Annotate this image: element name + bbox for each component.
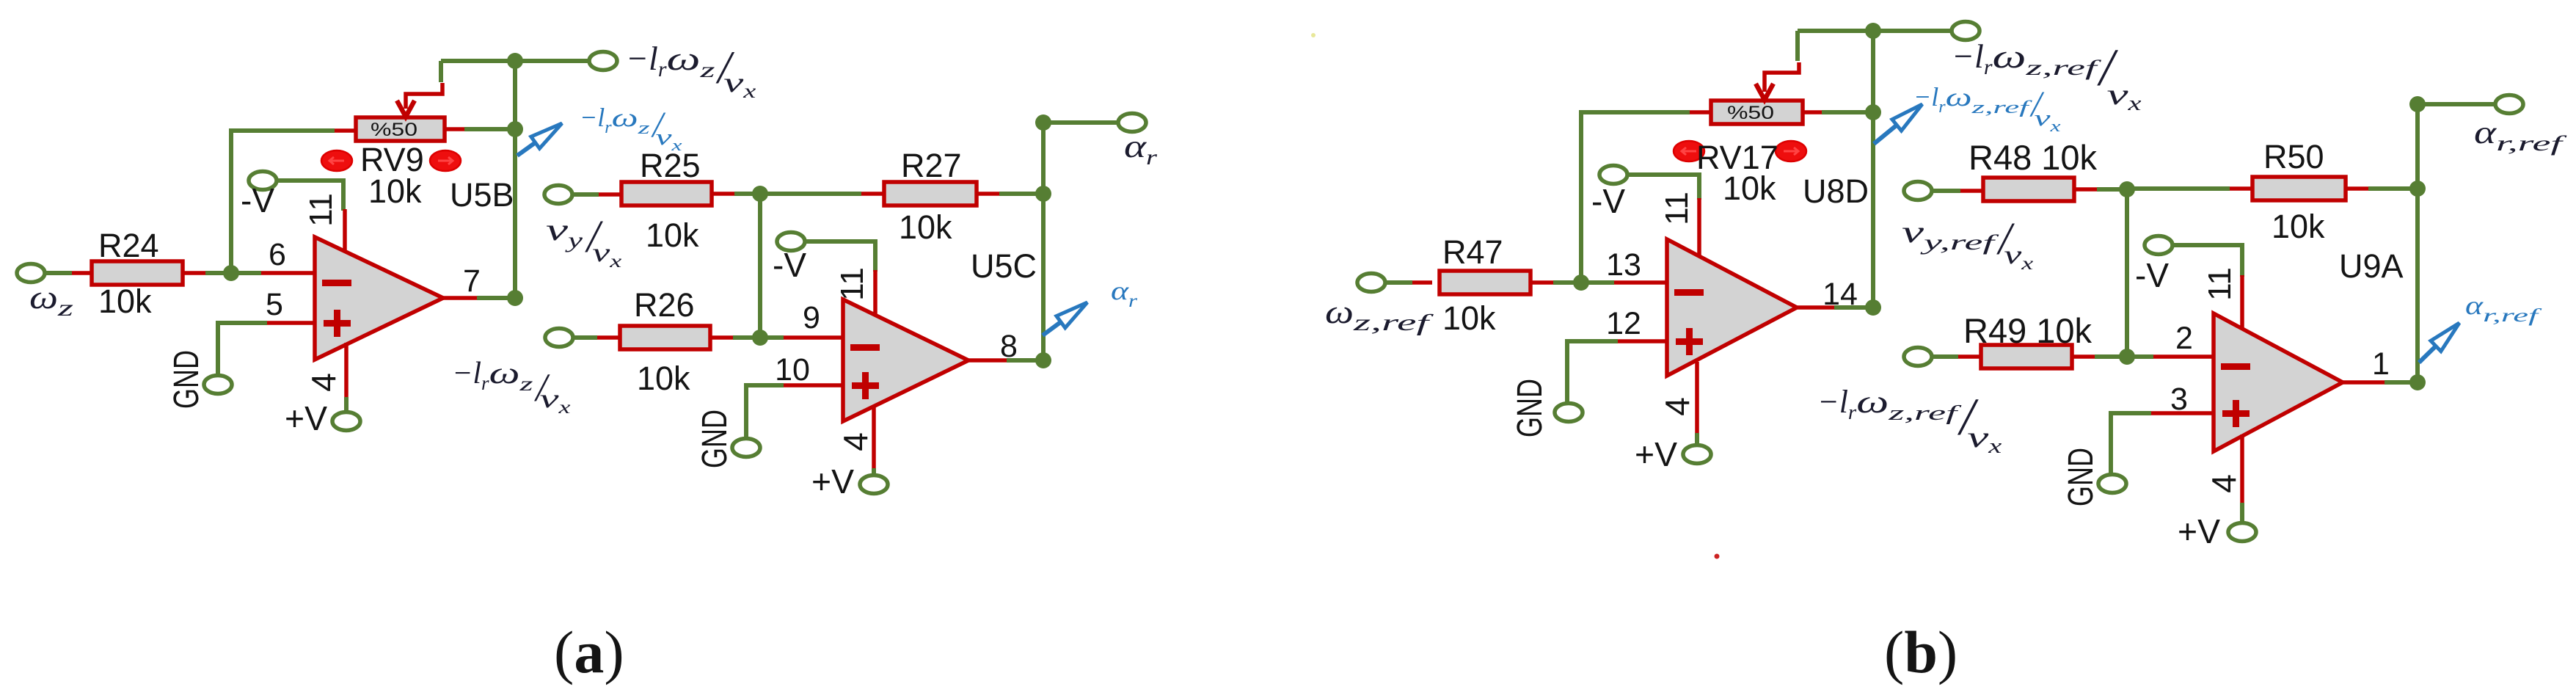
svg-text:U5B: U5B	[450, 176, 514, 214]
wire R50 to node G	[2368, 186, 2418, 191]
wire terminal to R26	[573, 335, 597, 340]
svg-text:10k: 10k	[646, 216, 699, 254]
svg-text:vy/vx: vy/vx	[546, 212, 621, 272]
+V terminal U5C	[860, 476, 888, 494]
resistor R50	[2252, 177, 2346, 200]
svg-text:7: 7	[463, 263, 481, 299]
resistor R47	[1440, 271, 1530, 294]
ground terminal U5B	[204, 376, 232, 394]
feedback wire node E to RV17	[1581, 112, 1690, 283]
svg-text:-V: -V	[1591, 182, 1625, 220]
wire R48 to node F	[2097, 187, 2127, 192]
node top alpha_ref junction	[2409, 96, 2426, 112]
pin stub R25 left	[599, 192, 621, 197]
blue annotation arrow a2	[1043, 322, 1061, 335]
svg-text:10k: 10k	[2272, 208, 2325, 245]
pin 8 stub U5C	[968, 358, 1008, 363]
svg-text:6: 6	[269, 237, 286, 272]
wire terminal to R49	[1932, 354, 1958, 359]
pin stub R27 left	[861, 192, 884, 196]
wire node A to pin 6	[231, 271, 261, 275]
svg-text:(a): (a)	[554, 619, 624, 685]
pin stub R27 right	[977, 192, 999, 196]
pin 4 stub U5C	[872, 405, 876, 468]
node RV9 junction	[507, 121, 523, 137]
+V terminal U8D	[1683, 445, 1711, 464]
node RV17 junction	[1865, 104, 1881, 120]
wire node B to R27	[760, 192, 861, 196]
node F junction	[2119, 181, 2135, 197]
resistor R27	[884, 182, 977, 205]
node C junction	[1035, 186, 1051, 202]
pin 5 stub U5B	[267, 321, 315, 325]
pin stub R47 right	[1530, 280, 1553, 285]
screw mark right of RV9	[430, 150, 461, 171]
wire RV9 to vertical net	[464, 127, 515, 131]
svg-text:-V: -V	[773, 246, 806, 284]
input terminal omega_z_ref	[1357, 274, 1385, 292]
wire R47 to node E	[1553, 280, 1581, 285]
svg-text:αr,ref: αr,ref	[2465, 291, 2542, 326]
terminal vy/vx input	[544, 186, 572, 204]
node G junction	[2409, 181, 2426, 197]
svg-text:1: 1	[2372, 346, 2390, 382]
svg-text:−lrωz,ref/vx: −lrωz,ref/vx	[1913, 82, 2061, 135]
op-amp U9A	[2214, 313, 2343, 451]
pin 2 stub U9A	[2153, 354, 2214, 359]
svg-text:R27: R27	[901, 147, 962, 184]
pin stub RV9 left	[335, 128, 357, 133]
RV17 wiper arrowhead	[1756, 84, 1773, 100]
wire GND to pin 10	[746, 385, 784, 439]
terminal -V U5C	[777, 233, 805, 251]
svg-text:R47: R47	[1442, 233, 1503, 271]
svg-text:−lrωz/vx: −lrωz/vx	[452, 357, 571, 418]
wire to alpha_r_ref terminal	[2418, 102, 2495, 106]
resistor R26	[620, 326, 710, 349]
terminal alpha_r	[1118, 114, 1146, 132]
wire pin4 to +V U9A	[2240, 503, 2244, 523]
svg-text:12: 12	[1606, 306, 1641, 341]
vertical wire node G to output U9A	[2415, 104, 2420, 382]
wire GND to pin 5	[218, 323, 267, 376]
pin 14 stub U8D	[1797, 305, 1836, 310]
svg-text:10k: 10k	[899, 208, 952, 246]
svg-text:αr,ref: αr,ref	[2474, 114, 2567, 156]
pin 11 stub U9A	[2240, 275, 2244, 329]
svg-text:4: 4	[2205, 474, 2243, 493]
wire vy terminal to R25	[572, 192, 599, 197]
svg-text:11: 11	[303, 193, 339, 227]
svg-text:+V: +V	[1635, 435, 1677, 473]
svg-text:10k: 10k	[98, 283, 152, 320]
terminal -lrwz/vx input a	[545, 329, 573, 347]
svg-text:−lrωz,ref/vx: −lrωz,ref/vx	[1817, 384, 2002, 458]
blue annotation arrow a1	[517, 142, 536, 156]
pin 4 stub U8D	[1695, 362, 1699, 433]
svg-text:3: 3	[2170, 382, 2188, 417]
wire to alpha_r terminal	[1043, 120, 1118, 125]
pin stub R49 left	[1958, 354, 1981, 359]
svg-text:ωz,ref: ωz,ref	[1325, 293, 1434, 335]
wire node D to pin 9	[760, 335, 784, 340]
node output U5B junction	[507, 290, 523, 306]
op-amp U5B	[315, 237, 443, 360]
pin stub R26 left	[597, 335, 620, 340]
svg-text:4: 4	[836, 432, 875, 451]
RV9 wiper arrowhead	[397, 101, 415, 117]
resistor R48	[1983, 178, 2074, 201]
svg-text:13: 13	[1606, 247, 1641, 283]
+V terminal U5B	[332, 412, 360, 431]
wire pin14 to vertical net b	[1834, 305, 1873, 310]
node top-a junction	[507, 53, 523, 69]
pin stub R48 right	[2074, 187, 2097, 192]
svg-text:R25: R25	[640, 147, 701, 184]
wire node H to pin 2	[2127, 354, 2153, 359]
node output U8D junction	[1865, 299, 1881, 316]
RV17 wiper red path	[1765, 62, 1799, 92]
resistor R24	[92, 261, 183, 285]
svg-text:11: 11	[834, 267, 870, 301]
pin 4 stub U5B	[344, 343, 349, 397]
pin 1 stub U9A	[2343, 380, 2386, 385]
ground terminal U5C	[732, 439, 760, 457]
pin 10 stub U5C	[784, 383, 844, 387]
terminal alpha_r_ref	[2495, 95, 2523, 114]
potentiometer RV17 body	[1711, 101, 1803, 124]
ground terminal U9A	[2098, 475, 2126, 493]
pin stub RV9 right	[445, 127, 464, 131]
pin 12 stub U8D	[1618, 339, 1668, 343]
svg-text:11: 11	[1659, 192, 1695, 225]
svg-text:4: 4	[1658, 397, 1696, 416]
pin stub R48 left	[1960, 189, 1983, 193]
svg-text:2: 2	[2175, 321, 2193, 356]
terminal -lrwzref/vx top b	[1952, 22, 1980, 40]
top output wire circuit b	[1798, 29, 1951, 33]
wire -V to pin 11 U9A	[2172, 245, 2242, 277]
stray yellow speck	[1311, 33, 1316, 37]
wire GND to pin 3	[2111, 413, 2151, 475]
feedback wire node F down to pin 2 node	[2125, 189, 2129, 357]
op-amp U8D	[1667, 239, 1797, 376]
pin stub R26 right	[710, 335, 733, 340]
pin stub R24 right	[183, 271, 205, 275]
wire omega_z_ref to R47	[1385, 280, 1412, 285]
node E junction	[1573, 274, 1589, 291]
terminal -V U5B	[249, 172, 277, 190]
stray red speck	[1715, 554, 1720, 559]
svg-text:%50: %50	[1727, 103, 1774, 123]
node D junction	[752, 330, 768, 346]
wire R27 to node C	[999, 192, 1043, 196]
svg-text:10k: 10k	[637, 360, 690, 397]
svg-text:(b): (b)	[1884, 619, 1957, 685]
svg-text:GND: GND	[1511, 379, 1550, 437]
wire R25 to node B	[734, 192, 760, 196]
terminal -lrwzref/vx input b	[1904, 348, 1932, 366]
op-amp U5C	[843, 299, 968, 421]
terminal vyref/vx input	[1904, 182, 1932, 200]
wire node E to pin 13	[1581, 280, 1614, 285]
svg-text:αr: αr	[1124, 128, 1157, 170]
pin 11 stub U8D	[1697, 198, 1701, 256]
wire pin4 to +V U8D	[1695, 433, 1699, 445]
pin 7 stub U5B	[443, 296, 478, 300]
pin 11 stub U5B	[343, 209, 347, 254]
top output wire circuit a	[441, 59, 589, 63]
svg-text:GND: GND	[167, 350, 206, 409]
svg-text:R50: R50	[2263, 138, 2324, 175]
svg-text:R49 10k: R49 10k	[1963, 311, 2092, 350]
pin stub R25 right	[712, 192, 734, 196]
node B junction	[752, 186, 768, 202]
resistor R49	[1981, 345, 2072, 368]
wire R26 to node D	[733, 335, 760, 340]
resistor R25	[621, 182, 712, 205]
wire node F to R50	[2127, 186, 2230, 191]
svg-text:+V: +V	[2178, 512, 2220, 550]
svg-text:+V: +V	[285, 399, 327, 437]
pin 3 stub U9A	[2151, 411, 2214, 415]
svg-text:ωz: ωz	[29, 278, 74, 321]
svg-text:U9A: U9A	[2339, 247, 2404, 285]
screw mark right of RV17	[1776, 141, 1806, 161]
wire pin1 to node G net	[2385, 380, 2418, 385]
wire pin4 to +V terminal U5B	[344, 397, 349, 412]
pin stub R50 right	[2346, 186, 2368, 191]
svg-text:αr: αr	[1111, 276, 1137, 311]
svg-text:-V: -V	[241, 181, 274, 219]
pin stub R50 left	[2230, 186, 2252, 191]
RV9 wiper wire green part	[439, 61, 443, 82]
svg-text:-V: -V	[2135, 256, 2169, 294]
wire pin7 to vertical net	[477, 296, 515, 300]
pin stub R47 left	[1412, 280, 1432, 285]
wire vyref terminal to R48	[1932, 189, 1960, 193]
pin 4 stub U9A	[2240, 434, 2244, 503]
wire -V to pin 11 U8D	[1627, 175, 1699, 200]
pin stub R24 left	[72, 271, 92, 275]
wire -V to pin 11 U5B	[277, 181, 343, 211]
RV9 wiper red path	[406, 83, 442, 109]
pin stub R49 right	[2072, 354, 2095, 359]
svg-text:10k: 10k	[1442, 299, 1496, 337]
screw mark left of RV17	[1674, 141, 1704, 161]
svg-text:9: 9	[803, 300, 820, 335]
wire pin4 to +V U5C	[872, 468, 876, 476]
feedback wire node A to RV9	[231, 131, 335, 273]
svg-text:U8D: U8D	[1803, 172, 1869, 210]
input terminal omega_z	[17, 264, 45, 283]
svg-text:GND: GND	[696, 410, 734, 468]
node top alpha junction	[1035, 114, 1051, 131]
svg-text:%50: %50	[371, 120, 417, 140]
vertical net wire output U8D	[1871, 31, 1875, 308]
wire RV17 to vertical net b	[1822, 110, 1873, 114]
wire R49 to node H	[2095, 354, 2127, 359]
+V terminal U9A	[2228, 523, 2256, 542]
wire pin8 to node C net	[1007, 358, 1043, 363]
node output U5C junction	[1035, 352, 1051, 368]
svg-text:−lrωz/vx: −lrωz/vx	[626, 40, 756, 102]
pin 13 stub U8D	[1614, 280, 1668, 285]
vertical wire node C to output U5C	[1041, 123, 1046, 360]
svg-text:11: 11	[2202, 267, 2238, 301]
pin 9 stub U5C	[784, 335, 844, 340]
vertical net wire output U5B	[513, 61, 517, 298]
pin stub RV17 right	[1803, 110, 1822, 114]
wire R24 to node A	[205, 271, 231, 275]
node top-b junction	[1865, 23, 1881, 39]
wire -V to pin 11 U5C	[805, 241, 875, 272]
RV17 wiper wire green part	[1795, 31, 1800, 61]
terminal -V U8D	[1599, 166, 1627, 184]
svg-text:vy,ref/vx: vy,ref/vx	[1902, 214, 2033, 274]
pin 6 stub U5B	[261, 271, 315, 275]
blue annotation arrow b2	[2419, 346, 2436, 363]
terminal -V U9A	[2145, 236, 2172, 255]
svg-text:4: 4	[304, 373, 343, 392]
svg-text:5: 5	[266, 287, 283, 322]
node output U9A junction	[2409, 374, 2426, 390]
svg-text:R48 10k: R48 10k	[1969, 138, 2098, 177]
svg-text:+V: +V	[811, 462, 854, 501]
potentiometer RV9 body	[356, 117, 445, 141]
svg-text:10k: 10k	[368, 172, 422, 210]
screw mark left of RV9	[321, 150, 352, 171]
terminal -lrwz/vx top a	[589, 52, 617, 70]
svg-text:10: 10	[775, 352, 810, 387]
svg-text:R26: R26	[634, 286, 695, 324]
ground terminal U8D	[1555, 404, 1583, 422]
svg-text:GND: GND	[2062, 448, 2101, 506]
pin stub RV17 left	[1690, 110, 1712, 114]
node H junction	[2119, 349, 2135, 365]
wire omega_z to R24	[45, 271, 72, 275]
feedback wire node B down to pin 9 node	[758, 194, 762, 338]
svg-text:R24: R24	[98, 227, 159, 264]
node A junction	[223, 265, 239, 281]
blue annotation arrow b1	[1874, 125, 1897, 144]
pin 11 stub U5C	[873, 270, 877, 315]
svg-text:U5C: U5C	[971, 247, 1037, 285]
wire GND to pin 12	[1567, 341, 1618, 404]
svg-text:10k: 10k	[1723, 170, 1776, 207]
